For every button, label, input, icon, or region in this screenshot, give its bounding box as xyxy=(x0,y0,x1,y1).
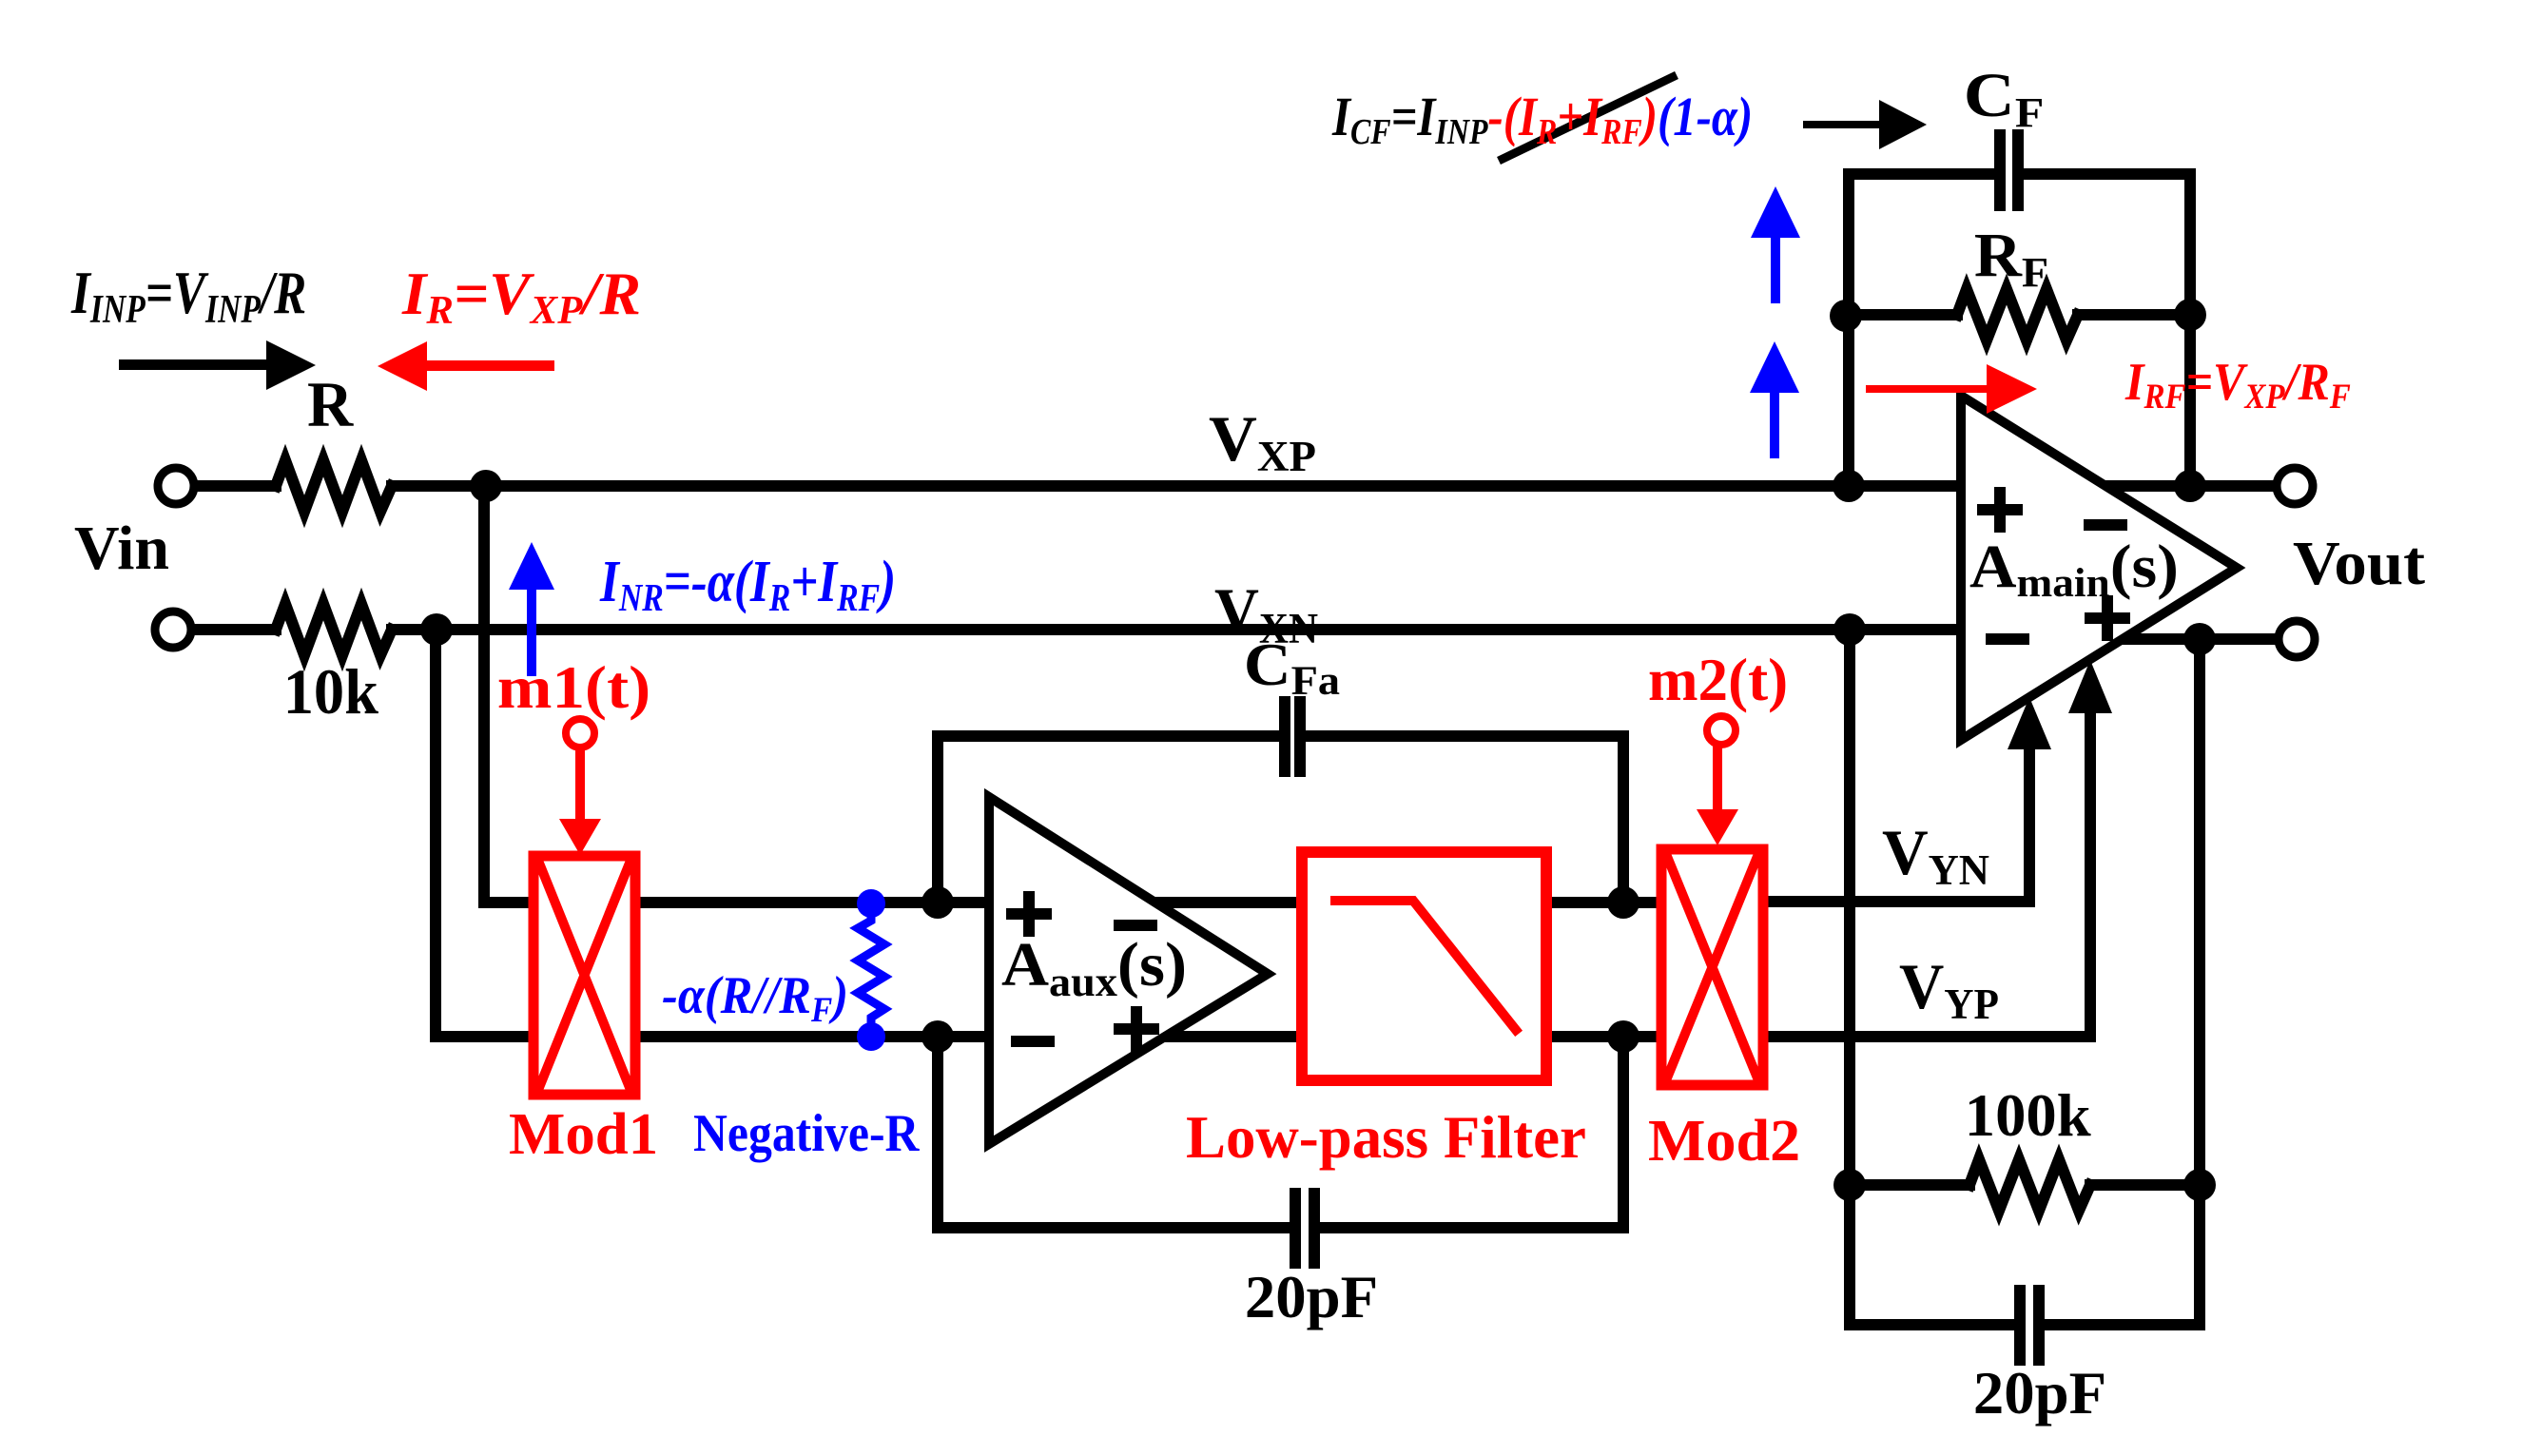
Amain minus input xyxy=(1991,633,2024,645)
wire Vout bottom xyxy=(2121,633,2278,645)
label lAaux xyxy=(1001,929,1187,1004)
wire Mod2 to VYN xyxy=(1763,749,2029,902)
wire Vin- lead xyxy=(194,624,276,635)
label fIRF xyxy=(2124,353,2351,416)
wire node VXN down xyxy=(1844,630,1855,1325)
terminal Vout- xyxy=(2279,621,2315,657)
label lVout xyxy=(2293,528,2426,597)
node 100k right xyxy=(2183,1169,2216,1201)
modulator Mod2 xyxy=(1661,849,1763,1085)
node loop output xyxy=(2174,470,2206,502)
label l20pF xyxy=(1973,1359,2106,1427)
label fIR xyxy=(401,260,641,333)
Aaux plus output xyxy=(1119,1012,1154,1046)
label lMod2 xyxy=(1648,1108,1800,1174)
resistor 10k xyxy=(276,604,392,655)
node 100k left xyxy=(1833,1169,1866,1201)
svg-text:10k: 10k xyxy=(283,656,378,728)
svg-text:100k: 100k xyxy=(1965,1081,2091,1149)
op-amp Aaux xyxy=(989,797,1268,1144)
negative-R blue resistor xyxy=(858,903,884,1035)
node Vout lower xyxy=(2183,623,2216,655)
resistor 100k xyxy=(1969,1159,2090,1211)
label lVYP xyxy=(1899,952,1999,1028)
arrow IINP xyxy=(119,340,316,390)
label lVin xyxy=(74,514,169,583)
svg-text:Vout: Vout xyxy=(2293,528,2426,597)
node VXN-B xyxy=(1833,613,1866,646)
capacitor CF xyxy=(2000,135,2018,205)
label lMod1 xyxy=(509,1100,658,1167)
label lm1 xyxy=(497,654,650,721)
Aaux minus input xyxy=(1017,1036,1049,1047)
label lAmain xyxy=(1969,533,2179,606)
modulator Mod1 xyxy=(533,856,635,1095)
node aux in bottom xyxy=(921,1020,954,1053)
wire Vout top xyxy=(2102,480,2276,492)
svg-text:Vin: Vin xyxy=(74,514,169,583)
node VXP-B xyxy=(1833,470,1865,502)
arrow INR xyxy=(509,542,554,676)
capacitor CFa xyxy=(1285,702,1300,771)
terminal Vout+ xyxy=(2277,468,2313,504)
label lRF xyxy=(1974,220,2048,295)
low-pass filter box xyxy=(1302,852,1546,1080)
wire VXN xyxy=(392,624,1961,635)
resistor RF xyxy=(1957,289,2078,340)
node RF left xyxy=(1830,300,1862,332)
arrow blue upper xyxy=(1751,186,1800,303)
label l10k xyxy=(283,656,378,728)
wire 100k right xyxy=(2090,1179,2200,1191)
wire VXP to Mod1 top xyxy=(484,486,533,903)
label lm2 xyxy=(1648,646,1788,714)
arrow VYN xyxy=(2008,697,2051,902)
capacitor 20pF main xyxy=(2020,1291,2039,1360)
arrow VYP xyxy=(2068,660,2112,1036)
label lNegR xyxy=(693,1104,920,1162)
label lCF xyxy=(1964,61,2044,136)
Aaux minus output xyxy=(1119,920,1152,931)
node LPF out top xyxy=(1607,886,1639,919)
node VXN-A xyxy=(420,613,453,646)
node aux in top xyxy=(921,886,954,919)
Amain minus output xyxy=(2089,519,2122,531)
svg-text:m2(t): m2(t) xyxy=(1648,646,1788,714)
strikethrough line xyxy=(1499,75,1677,161)
node blue top xyxy=(857,889,885,918)
svg-text:Mod1: Mod1 xyxy=(509,1100,658,1167)
label fINR xyxy=(599,549,896,619)
terminal Vin- xyxy=(155,612,191,648)
m1 terminal xyxy=(566,719,594,747)
label lR xyxy=(307,368,355,440)
resistor R xyxy=(276,460,392,512)
svg-text:m1(t): m1(t) xyxy=(497,654,650,721)
arrow ICF xyxy=(1803,100,1927,149)
label lLPF xyxy=(1186,1103,1586,1172)
arrow IRF xyxy=(1866,364,2037,414)
label fICF xyxy=(1331,86,1753,152)
node VXP-A xyxy=(470,470,502,502)
capacitor 20pF aux xyxy=(1295,1194,1314,1263)
label fIINP xyxy=(70,259,306,332)
arrow IR xyxy=(378,341,554,391)
wire 20pF bottom xyxy=(1850,1319,2200,1330)
label lVXP xyxy=(1209,402,1316,480)
label l100k xyxy=(1965,1081,2091,1149)
wire Mod2 to VYP xyxy=(1763,713,2090,1037)
label lVXN xyxy=(1214,576,1318,653)
label lCFa xyxy=(1244,631,1340,703)
wire Mod1 to Aaux top xyxy=(635,897,1295,908)
terminal Vin+ xyxy=(158,468,194,504)
svg-text:Low-pass Filter: Low-pass Filter xyxy=(1186,1103,1586,1172)
Amain plus output xyxy=(2090,601,2124,635)
wire LPF to Mod2 top xyxy=(1552,897,1661,908)
svg-text:20pF: 20pF xyxy=(1245,1263,1378,1330)
wire VXP xyxy=(392,480,1961,492)
Aaux plus input xyxy=(1012,897,1046,931)
label lVYN xyxy=(1882,817,1989,894)
wire LPF to Mod2 bottom xyxy=(1552,1031,1661,1042)
svg-text:Negative-R: Negative-R xyxy=(693,1104,920,1162)
wire RF left xyxy=(1846,309,1957,320)
m1 arrow xyxy=(559,748,601,855)
wire Mod1 to Aaux bottom xyxy=(635,1031,1295,1042)
wire CFa feedback top xyxy=(938,736,1623,903)
m2 arrow xyxy=(1697,746,1738,845)
node LPF out bottom xyxy=(1607,1020,1639,1053)
wire CF RF loop xyxy=(1849,174,2190,486)
node RF right xyxy=(2174,299,2206,331)
m2 terminal xyxy=(1707,716,1736,745)
label falpha xyxy=(662,965,848,1030)
wire VXN to Mod1 bottom xyxy=(436,630,533,1037)
Amain plus input xyxy=(1983,493,2017,527)
wire Vout down xyxy=(2194,639,2205,1325)
svg-text:20pF: 20pF xyxy=(1973,1359,2106,1427)
wire Vin+ lead xyxy=(197,480,276,492)
wire 100k left xyxy=(1850,1179,1969,1191)
op-amp Amain xyxy=(1961,396,2237,740)
svg-text:Mod2: Mod2 xyxy=(1648,1108,1800,1174)
node blue bottom xyxy=(857,1022,885,1051)
label l20pFa xyxy=(1245,1263,1378,1330)
arrow blue lower xyxy=(1750,341,1799,458)
wire RF right xyxy=(2078,309,2190,320)
wire 20pF aux feedback bottom xyxy=(938,1037,1623,1228)
svg-text:R: R xyxy=(307,368,355,440)
